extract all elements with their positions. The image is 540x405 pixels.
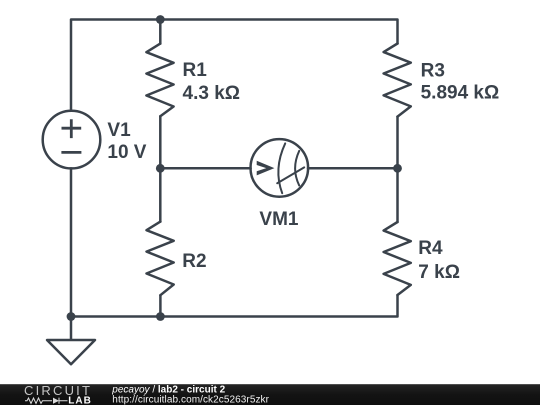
logo resistor squiggle and diode: [25, 398, 68, 404]
svg-text:7 kΩ: 7 kΩ: [418, 262, 460, 283]
svg-text:http://circuitlab.com/ck2c5263: http://circuitlab.com/ck2c5263r5zkr: [112, 395, 269, 405]
voltage source V1 circle: [43, 111, 101, 169]
VM1 arrow glyph: [257, 161, 275, 176]
VM1 needle: [277, 167, 304, 183]
svg-text:10 V: 10 V: [107, 142, 146, 163]
resistor R2: [147, 222, 174, 296]
svg-text:R3: R3: [421, 60, 445, 81]
wire middle horizontal right: [308, 167, 398, 170]
VM1 meter arc left: [278, 143, 285, 193]
svg-text:4.3 kΩ: 4.3 kΩ: [183, 83, 241, 104]
svg-text:R4: R4: [418, 238, 443, 259]
wire right (R3 bottom to middle node): [396, 117, 399, 222]
svg-text:5.894 kΩ: 5.894 kΩ: [421, 82, 500, 103]
V1 minus sign: [61, 151, 81, 154]
wire middle horizontal left: [160, 167, 250, 170]
svg-text:VM1: VM1: [259, 209, 299, 230]
wire left (V1 bottom to ground node): [70, 168, 73, 316]
V1 plus sign: [62, 119, 82, 138]
wire R2 bottom lead: [159, 295, 162, 316]
VM1 meter arc right: [295, 151, 299, 186]
node middle-right junction: [393, 164, 402, 173]
resistor R1: [146, 44, 173, 117]
svg-text:LAB: LAB: [68, 395, 92, 405]
svg-text:V1: V1: [107, 120, 131, 141]
node middle-left junction: [156, 164, 165, 173]
ground: [47, 317, 95, 365]
wire middle left: [159, 116, 162, 221]
wire bottom: [71, 295, 398, 317]
wire R1 top lead: [159, 20, 162, 44]
resistor R3: [384, 44, 411, 117]
svg-text:R1: R1: [183, 60, 208, 81]
node bottom R2 junction: [156, 312, 165, 321]
voltmeter VM1 circle: [250, 139, 308, 197]
node top junction: [156, 15, 165, 24]
resistor R4: [384, 222, 411, 295]
wire top: [71, 20, 398, 111]
node ground junction: [67, 312, 76, 321]
svg-text:R2: R2: [182, 251, 206, 272]
logo diode triangle: [53, 398, 59, 404]
